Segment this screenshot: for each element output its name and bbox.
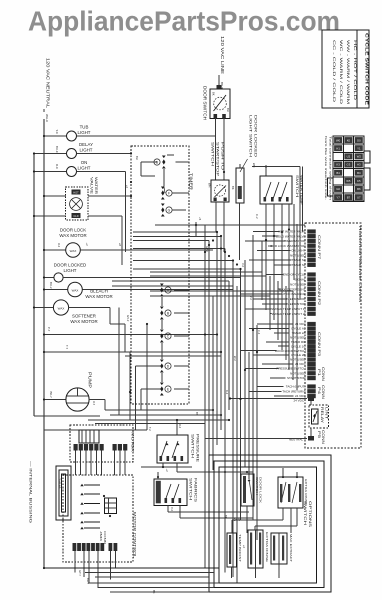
options switch extra spin box — [248, 530, 269, 568]
timer contact E2 — [160, 383, 171, 396]
svg-text:G3: G3 — [347, 163, 351, 167]
wire mid extra horizontals — [125, 276, 293, 356]
softener wax motor — [33, 300, 130, 352]
svg-text:FABRICS: FABRICS — [194, 478, 198, 503]
timer contact F — [161, 187, 186, 200]
svg-text:WAX: WAX — [58, 306, 65, 310]
svg-text:ON LIGHT: ON LIGHT — [291, 249, 305, 253]
svg-text:Household Machine Control: Household Machine Control — [358, 226, 362, 302]
svg-text:WAX MOTOR: WAX MOTOR — [70, 319, 97, 324]
svg-text:Y-2: Y-2 — [170, 507, 174, 512]
svg-text:K5: K5 — [357, 179, 361, 183]
options switch label — [303, 501, 312, 528]
wire fabric switch bottom — [168, 506, 253, 519]
svg-text:P5: P5 — [317, 431, 321, 438]
svg-text:+2: +2 — [165, 469, 169, 473]
svg-text:AppliancePartsPros.com: AppliancePartsPros.com — [28, 6, 340, 37]
motor assembly — [70, 425, 136, 462]
svg-text:Y1: Y1 — [357, 146, 361, 150]
connector CONN P1 — [276, 367, 325, 382]
svg-text:Y7: Y7 — [336, 195, 340, 199]
svg-text:EXTRA RINSE: EXTRA RINSE — [304, 479, 308, 505]
fabric switch — [154, 472, 198, 506]
svg-text:120 VAC LINE: 120 VAC LINE — [220, 36, 225, 74]
options misc labels — [224, 515, 246, 549]
svg-text:CC - COLD / COLD: CC - COLD / COLD — [332, 40, 336, 103]
svg-text:W-2: W-2 — [233, 356, 237, 361]
svg-text:SWITCH: SWITCH — [189, 478, 193, 501]
wire door switch to start switch — [223, 118, 225, 180]
svg-text:TIMER S1: TIMER S1 — [292, 263, 306, 267]
svg-text:K3: K3 — [336, 163, 340, 167]
lamp ON LIGHT — [33, 160, 126, 177]
svg-text:SWITCH: SWITCH — [191, 434, 195, 459]
cycle switch code legend — [322, 30, 370, 108]
push to start/stop switch — [208, 142, 236, 202]
svg-text:WAX: WAX — [70, 249, 77, 253]
svg-text:MOTOR: MOTOR — [131, 432, 136, 452]
svg-text:LIGHT: LIGHT — [64, 268, 77, 273]
svg-text:PRESSURE: PRESSURE — [196, 434, 200, 463]
svg-text:BK: BK — [212, 92, 216, 96]
svg-text:GY-2: GY-2 — [205, 246, 209, 252]
timer internal wires — [141, 162, 189, 389]
wire vertical bundle middle — [205, 224, 300, 583]
svg-text:24VA: 24VA — [58, 478, 62, 489]
svg-text:C-2: C-2 — [257, 330, 261, 335]
household machine control box — [305, 223, 362, 448]
svg-text:OUT OF BALANCE: OUT OF BALANCE — [279, 292, 305, 296]
svg-text:MAX. DETERGENT: MAX. DETERGENT — [279, 287, 306, 291]
timer contact G — [161, 204, 186, 217]
wire water valve cold — [33, 215, 122, 265]
svg-text:RELAY: RELAY — [320, 407, 324, 424]
svg-text:W2: W2 — [357, 155, 362, 159]
connector CONN P2 — [272, 273, 321, 316]
svg-text:MAX EXTRACT: MAX EXTRACT — [289, 534, 293, 563]
mesh junction dots — [204, 228, 290, 400]
svg-text:BK: BK — [152, 590, 156, 594]
wire water valve hot — [43, 195, 132, 197]
svg-text:END-OF-CYCLE: END-OF-CYCLE — [283, 273, 306, 277]
svg-text:BU-7: BU-7 — [86, 578, 90, 584]
svg-text:BK: BK — [231, 186, 235, 190]
svg-text:TACH (RETURN): TACH (RETURN) — [282, 389, 305, 393]
svg-text:BU: BU — [135, 156, 139, 160]
svg-text:COLD WATER VALVE: COLD WATER VALVE — [276, 234, 306, 238]
wire water temp drops — [266, 167, 300, 246]
wire dlls drop — [239, 203, 241, 260]
svg-text:U2: U2 — [347, 155, 351, 159]
motor control board — [63, 475, 138, 562]
svg-text:TEMP BOOST: TEMP BOOST — [238, 534, 242, 563]
svg-text:DOOR SWITCH: DOOR SWITCH — [203, 86, 208, 120]
svg-text:SWITCH: SWITCH — [211, 142, 215, 167]
svg-text:NOT USED: NOT USED — [290, 371, 306, 375]
bleach wax motor — [43, 282, 233, 299]
svg-text:DOOR LOCKED: DOOR LOCKED — [254, 115, 258, 158]
lamp TUB LIGHT — [43, 125, 216, 142]
pressure switch — [157, 419, 200, 463]
svg-text:LIGHT: LIGHT — [80, 147, 93, 152]
svg-text:R-9: R-9 — [55, 164, 59, 169]
svg-text:TIMER MOTOR: TIMER MOTOR — [284, 239, 306, 243]
wire pump-area risers — [44, 308, 161, 431]
timer contact B — [150, 155, 174, 169]
svg-text:from the wire insertion side.: from the wire insertion side. — [324, 136, 328, 200]
internal bussing note — [29, 461, 33, 523]
svg-text:PRESSURE SWITCH: PRESSURE SWITCH — [276, 367, 305, 371]
svg-text:BK: BK — [224, 515, 228, 519]
svg-text:GY-7: GY-7 — [78, 570, 82, 576]
svg-text:CLD: CLD — [73, 214, 78, 218]
svg-text:WH: WH — [208, 183, 212, 187]
svg-text:P1: P1 — [317, 369, 321, 376]
svg-text:DOOR LOCK: DOOR LOCK — [60, 228, 86, 233]
svg-text:T-2: T-2 — [148, 427, 152, 431]
svg-text:BU-2: BU-2 — [49, 282, 53, 289]
svg-text:W5: W5 — [346, 179, 351, 183]
svg-text:WW - WARM / WARM: WW - WARM / WARM — [346, 40, 350, 104]
wire motor control bottom drops — [75, 551, 116, 588]
svg-text:120 VAC NEUTRAL: 120 VAC NEUTRAL — [46, 58, 51, 109]
svg-text:DELAY: DELAY — [79, 142, 93, 147]
svg-text:WC - WARM / COLD: WC - WARM / COLD — [339, 40, 343, 105]
svg-text:TIMER 2A: TIMER 2A — [292, 331, 306, 335]
svg-text:SOFTENER: SOFTENER — [72, 314, 96, 319]
svg-text:HC - HOT / COLD: HC - HOT / COLD — [353, 40, 357, 101]
svg-text:F: F — [168, 191, 170, 195]
svg-text:G6: G6 — [336, 187, 340, 191]
wire mid horizontal runs — [112, 232, 262, 286]
svg-text:R-2: R-2 — [225, 390, 229, 395]
net 120 VAC NEUTRAL label — [44, 58, 51, 122]
svg-text:WAX MOTOR: WAX MOTOR — [59, 233, 86, 238]
svg-text:WH: WH — [252, 163, 256, 167]
wire door switch to lights bus — [215, 118, 217, 180]
svg-text:H1: H1 — [336, 146, 340, 150]
wire upper mesh extras — [155, 167, 305, 281]
timer contact A2 — [160, 284, 171, 297]
wire pin feed runs — [241, 232, 294, 397]
svg-text:V-2: V-2 — [241, 263, 245, 267]
options switch rinse box — [278, 468, 308, 508]
svg-text:MOTOR CONTROL: MOTOR CONTROL — [133, 512, 138, 559]
door switch DS — [203, 80, 231, 120]
svg-text:T-7: T-7 — [65, 345, 69, 349]
options switch spin box — [241, 474, 263, 506]
svg-text:B6: B6 — [357, 187, 361, 191]
transformer — [56, 466, 71, 520]
wire on-light drop — [126, 172, 133, 253]
svg-text:K0: K0 — [347, 138, 351, 142]
svg-text:Total connector wiring shown: Total connector wiring shown — [329, 136, 333, 201]
wire bottom bus — [43, 567, 219, 594]
svg-text:WAX: WAX — [72, 288, 79, 292]
svg-text:VALVE: VALVE — [90, 177, 94, 195]
svg-text:U7: U7 — [357, 195, 361, 199]
connector CONN P7 — [268, 230, 321, 267]
options switch surround wires — [209, 455, 331, 592]
svg-text:Y-2: Y-2 — [249, 296, 253, 300]
svg-text:+2: +2 — [85, 243, 89, 247]
svg-text:PUSH TO: PUSH TO — [221, 142, 225, 170]
svg-text:CONN P3: CONN P3 — [317, 332, 321, 356]
svg-text:CONN P7: CONN P7 — [317, 235, 321, 259]
svg-text:TIMER: TIMER — [189, 173, 194, 191]
svg-text:— INTERNAL BUSSING: — INTERNAL BUSSING — [29, 461, 33, 523]
svg-text:BT: BT — [195, 412, 199, 416]
options switch presoak box — [227, 533, 242, 567]
svg-text:B7: B7 — [347, 195, 351, 199]
lamp DELAY LIGHT — [33, 142, 132, 159]
svg-text:Y-9: Y-9 — [55, 130, 59, 135]
options switch dispenser box — [271, 533, 293, 564]
svg-text:P-7: P-7 — [47, 327, 51, 332]
svg-text:B4: B4 — [357, 171, 361, 175]
svg-text:CONN P2: CONN P2 — [317, 281, 321, 305]
lint relay — [289, 397, 329, 445]
svg-text:WAX MOTOR: WAX MOTOR — [85, 294, 112, 299]
door lock wax motor — [43, 228, 213, 258]
svg-text:LIGHT: LIGHT — [78, 130, 91, 135]
wire start sw drops — [216, 171, 225, 252]
lamp DOOR LOCKED LIGHT — [43, 263, 240, 283]
svg-text:TUB: TUB — [80, 125, 89, 130]
timer contact C2 — [160, 330, 171, 343]
svg-text:JM4: JM4 — [99, 531, 103, 542]
svg-text:P4: P4 — [317, 387, 321, 394]
svg-text:SWITCH: SWITCH — [255, 477, 259, 495]
pump motor — [43, 372, 105, 411]
svg-text:V-2: V-2 — [178, 424, 182, 429]
wire left bus 120 VAC NEUTRAL vertical — [43, 119, 45, 568]
svg-text:START/STOP: START/STOP — [287, 376, 306, 380]
svg-text:W0: W0 — [336, 138, 341, 142]
wire second left bus — [34, 154, 100, 417]
wire lint relay feeds — [205, 399, 307, 474]
door locked light switch — [236, 115, 258, 203]
svg-text:OPTIONS: OPTIONS — [308, 501, 312, 528]
svg-text:24 VDC: 24 VDC — [293, 399, 304, 403]
svg-text:CYCLE SWITCH CODE: CYCLE SWITCH CODE — [365, 33, 370, 105]
wire labels misc — [118, 156, 261, 431]
svg-text:NOT USED: NOT USED — [290, 358, 306, 362]
svg-text:LIGHT: LIGHT — [78, 165, 91, 170]
svg-text:+5: +5 — [198, 217, 202, 221]
connector CONN P4 — [282, 385, 325, 400]
timer contact B2 — [160, 307, 171, 320]
wire motor to control — [76, 451, 126, 476]
svg-text:H3: H3 — [357, 163, 361, 167]
svg-text:BU-9: BU-9 — [55, 146, 59, 153]
svg-text:G0: G0 — [357, 138, 361, 142]
svg-text:G: G — [168, 208, 171, 212]
net 120 VAC LINE label — [219, 36, 225, 89]
svg-text:NOT USED: NOT USED — [290, 282, 306, 286]
wire pump runs — [88, 409, 230, 424]
svg-text:WH-9: WH-9 — [45, 114, 49, 122]
wire feeder B — [43, 345, 221, 353]
svg-text:BU: BU — [226, 108, 230, 112]
svg-text:B4: B4 — [336, 171, 340, 175]
wire pressure switch bottom — [141, 463, 253, 472]
svg-text:START/STOP: START/STOP — [216, 142, 220, 177]
svg-text:BK-7: BK-7 — [49, 392, 53, 399]
svg-text:WATER: WATER — [94, 177, 98, 194]
svg-text:SWITCH: SWITCH — [295, 175, 299, 198]
wire feeder A — [43, 327, 217, 336]
connector CONN P3 — [275, 322, 321, 366]
svg-text:DOOR LOCKED: DOOR LOCKED — [54, 263, 86, 268]
svg-text:PUMP: PUMP — [88, 372, 93, 388]
water temp switch — [252, 163, 304, 206]
timer assembly box — [131, 146, 194, 404]
water valve assembly — [66, 177, 99, 220]
svg-text:V-7: V-7 — [92, 401, 96, 406]
svg-text:EXTRA RINSE: EXTRA RINSE — [265, 532, 269, 562]
timer contact D2 — [160, 360, 171, 373]
svg-text:LIGHT SWITCH: LIGHT SWITCH — [249, 115, 253, 158]
svg-text:TACH (INPUT): TACH (INPUT) — [286, 385, 306, 389]
options internal wires — [232, 506, 298, 578]
svg-text:LINT: LINT — [325, 407, 329, 419]
svg-text:GY-2: GY-2 — [126, 315, 130, 322]
svg-text:NOT USED: NOT USED — [290, 336, 306, 340]
svg-text:HOT: HOT — [73, 190, 79, 194]
svg-text:TIMER S2: TIMER S2 — [292, 258, 306, 262]
svg-text:ON: ON — [81, 160, 88, 165]
svg-text:NOT USED: NOT USED — [290, 253, 306, 257]
svg-text:DOOR LOCK SWITCH: DOOR LOCK SWITCH — [275, 349, 306, 353]
svg-text:V-2: V-2 — [57, 243, 61, 248]
svg-text:C-2: C-2 — [255, 214, 259, 219]
machine control connector pinout view — [324, 136, 370, 201]
